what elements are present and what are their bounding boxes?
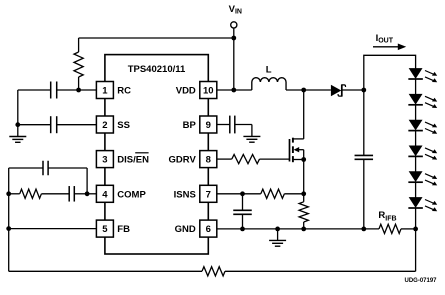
svg-text:RC: RC: [117, 86, 131, 97]
svg-text:10: 10: [203, 86, 214, 97]
svg-text:UDG-07197: UDG-07197: [404, 278, 437, 284]
svg-text:3: 3: [102, 155, 107, 166]
svg-text:COMP: COMP: [117, 189, 146, 200]
svg-text:5: 5: [102, 224, 108, 235]
svg-text:9: 9: [206, 120, 211, 131]
svg-text:8: 8: [206, 155, 211, 166]
svg-text:7: 7: [206, 189, 211, 200]
svg-text:VDD: VDD: [176, 86, 196, 97]
svg-text:DIS/EN: DIS/EN: [117, 155, 149, 166]
svg-text:BP: BP: [183, 120, 197, 131]
svg-text:L: L: [266, 65, 272, 76]
svg-text:1: 1: [102, 86, 108, 97]
svg-text:SS: SS: [117, 120, 130, 131]
svg-text:GND: GND: [175, 224, 196, 235]
svg-text:TPS40210/11: TPS40210/11: [128, 64, 186, 75]
svg-text:FB: FB: [117, 224, 130, 235]
svg-text:2: 2: [102, 120, 107, 131]
svg-text:ISNS: ISNS: [174, 189, 196, 200]
svg-text:6: 6: [206, 224, 211, 235]
svg-text:4: 4: [102, 189, 108, 200]
svg-text:GDRV: GDRV: [169, 155, 197, 166]
